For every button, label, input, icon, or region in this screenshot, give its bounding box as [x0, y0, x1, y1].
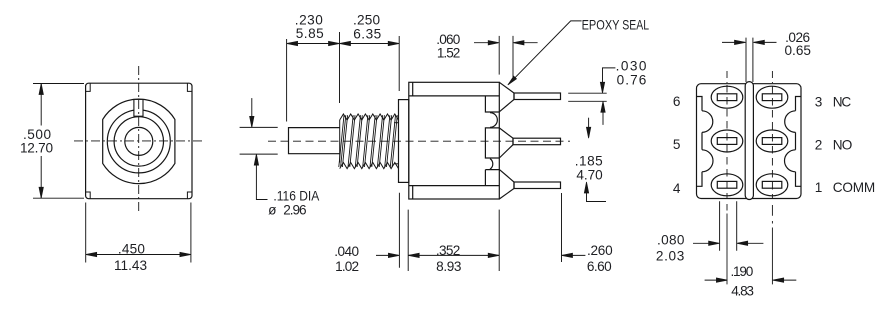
svg-text:.250: .250: [353, 12, 380, 27]
column centerline left through body: [726, 85, 728, 198]
dim .116 lower arrow tail with foot: [256, 155, 267, 199]
svg-text:0.65: 0.65: [784, 43, 811, 58]
terminal 1 ellipse: [756, 174, 788, 196]
dim .026 tails: [722, 41, 777, 43]
dim .185 lower arrow tail: [587, 183, 607, 202]
svg-text:.080: .080: [657, 233, 685, 248]
terminal 3 ellipse: [756, 86, 788, 108]
arrow .060 left: [488, 41, 499, 45]
svg-text:2: 2: [815, 138, 823, 153]
svg-text:.040: .040: [334, 244, 359, 259]
column centerline right above: [771, 71, 773, 83]
dim .260 tail: [563, 254, 586, 256]
terminal 4 pin: [717, 181, 737, 188]
terminal 5 ellipse: [711, 130, 743, 152]
terminal 2 ellipse: [756, 130, 788, 152]
arrow .116 down: [250, 116, 254, 127]
terminal pocket top: [485, 96, 499, 112]
svg-text:COMM: COMM: [833, 180, 876, 195]
arrow .080 left: [709, 241, 720, 245]
switch body: [409, 82, 500, 199]
right edge channel: [796, 97, 802, 187]
svg-text:0.76: 0.76: [617, 73, 647, 88]
arrow .185 down: [586, 127, 590, 138]
epoxy seal arrowhead: [508, 76, 517, 85]
arrow .080 right: [737, 241, 748, 245]
terminal 2 seal block: [485, 128, 499, 158]
svg-text:2.03: 2.03: [656, 248, 685, 263]
left notch arc upper: [702, 111, 713, 133]
thread-flange step bottom: [394, 163, 399, 165]
svg-text:EPOXY: EPOXY: [582, 17, 620, 32]
terminal pocket bottom: [485, 170, 499, 186]
dim .260 extension right: [561, 193, 563, 262]
arrow .352 left: [408, 253, 419, 257]
arrowheads: [39, 40, 784, 282]
dim .352 line: [408, 254, 499, 256]
svg-text:ø: ø: [268, 203, 276, 218]
terminal 6 ellipse: [711, 86, 743, 108]
terminal 2 pin: [762, 138, 782, 145]
arrow .026 right: [753, 40, 764, 44]
dim .230/.250 line: [287, 43, 400, 45]
terminal 1 pin: [514, 182, 561, 189]
terminal 5 pin: [717, 138, 737, 145]
terminal 3 pin: [514, 93, 561, 100]
arrow .190 left: [716, 278, 727, 282]
body cover line bottom: [409, 185, 500, 187]
dim .230/.250 extension C: [398, 36, 400, 91]
dim .060 extension right: [512, 36, 514, 77]
svg-text:.260: .260: [587, 243, 613, 258]
dim .030 leader: [603, 68, 616, 92]
bottom view body: [697, 84, 802, 199]
svg-text:3: 3: [815, 94, 823, 109]
plunger inner circle: [125, 127, 153, 155]
dimensions: [33, 21, 796, 280]
svg-text:4.70: 4.70: [576, 167, 603, 182]
dim .040 extensions: [399, 193, 408, 271]
dim .080 tails: [693, 242, 763, 244]
body lip top: [412, 82, 414, 96]
mounting flange: [399, 100, 409, 183]
arrow .500 up: [39, 84, 43, 95]
front view horizontal centerline: [74, 140, 203, 142]
column centerline left below: [726, 204, 728, 284]
svg-text:.030: .030: [616, 59, 647, 74]
arrow .026 left: [735, 40, 746, 44]
dim .040 tail: [376, 254, 398, 256]
body lip bottom: [412, 186, 414, 199]
terminal 3 cone top: [499, 82, 514, 112]
terminal 1 cone bottom: [499, 169, 514, 199]
dim .116 upper arrow tail: [251, 98, 253, 126]
corner notch TR: [187, 83, 192, 91]
dim .500 line: [40, 84, 42, 199]
svg-text:6: 6: [673, 94, 681, 109]
dim .450 extension right: [190, 203, 192, 263]
corner notch TL: [86, 83, 91, 91]
dim .185 upper arrow tail: [588, 118, 590, 138]
arrow .190 right: [773, 278, 784, 282]
arrow .060 right: [513, 41, 524, 45]
svg-text:1.02: 1.02: [335, 259, 359, 274]
front view vertical centerline: [138, 66, 140, 211]
svg-text:4: 4: [673, 181, 681, 196]
arrow .030 up: [601, 101, 605, 112]
right notch arc upper: [785, 111, 796, 133]
dim .500 extension bottom: [33, 197, 84, 199]
threaded bushing top crests: [340, 114, 399, 120]
arrow .030 down: [600, 82, 604, 93]
thread-flange step top: [394, 122, 399, 124]
arrow .250 right at C: [388, 41, 399, 45]
column centerline left above: [726, 71, 728, 83]
terminal 1 pin: [762, 181, 782, 188]
svg-text:.116 DIA: .116 DIA: [273, 189, 320, 204]
dim .450 line: [86, 254, 191, 256]
dim .352 extension right: [498, 210, 500, 271]
svg-text:.352: .352: [436, 243, 461, 258]
dim .026 extensions: [746, 38, 753, 82]
svg-text:5: 5: [673, 137, 681, 152]
dim .060 tails: [474, 42, 538, 44]
svg-text:2.96: 2.96: [283, 203, 306, 218]
terminal 6 pin: [717, 94, 737, 101]
corner notch BL: [86, 192, 91, 199]
svg-text:4.83: 4.83: [731, 283, 754, 298]
terminal 4 ellipse: [711, 174, 743, 196]
svg-text:1: 1: [815, 180, 823, 195]
arrow .450 left: [86, 252, 97, 256]
column centerline right below: [771, 205, 773, 284]
arrow .230 right at B: [329, 41, 340, 45]
dim .116 extension bottom: [240, 153, 278, 155]
bushing circle: [107, 110, 170, 173]
left edge channel: [697, 97, 703, 187]
svg-text:NO: NO: [833, 138, 853, 153]
dim .080 extensions: [720, 201, 737, 251]
front view body square: [86, 83, 192, 199]
dim .500 extension top: [33, 83, 84, 85]
threaded bushing start edge: [339, 120, 341, 163]
dim .230/.250 extension B: [339, 32, 341, 103]
arrow .500 down: [39, 187, 43, 198]
dim .450 extension left: [85, 203, 87, 263]
arrow .116 up: [254, 154, 258, 165]
keyway slot: [134, 99, 143, 116]
arrow .450 right: [180, 252, 191, 256]
center divider bar: [745, 82, 753, 200]
dim .116 extension top: [240, 126, 278, 128]
svg-text:6.35: 6.35: [353, 27, 381, 42]
dim .030 lower arrow tail: [602, 102, 604, 125]
arrow .260: [562, 253, 573, 257]
corner notch BR: [187, 192, 192, 199]
threaded bushing bottom crests: [340, 163, 399, 169]
svg-text:12.70: 12.70: [20, 140, 53, 155]
thread flank lines: [339, 115, 398, 167]
svg-text:5.85: 5.85: [296, 26, 324, 41]
plunger outer circle: [114, 117, 163, 166]
svg-text:NC: NC: [833, 94, 852, 109]
scallop between terminals 3 and 2: [490, 113, 497, 128]
dim .060 extension left: [498, 36, 500, 75]
left notch arc lower: [702, 150, 713, 172]
epoxy seal leader: [509, 21, 582, 84]
arrow .250 left at B: [340, 41, 351, 45]
terminal 2 cone: [499, 128, 513, 158]
dim .030 extension lines: [568, 93, 607, 101]
right notch arc lower: [785, 150, 796, 172]
arrow .185 up: [584, 182, 588, 193]
svg-text:8.93: 8.93: [436, 259, 461, 274]
svg-text:.190: .190: [731, 264, 754, 279]
terminal 2 pin: [513, 138, 561, 145]
svg-text:11.43: 11.43: [114, 258, 147, 273]
svg-text:1.52: 1.52: [437, 45, 461, 60]
dim .230/.250 extension A: [286, 39, 288, 122]
plunger shaft: [289, 128, 340, 154]
bushing outline with flats: [103, 99, 175, 184]
body cover line top: [409, 95, 500, 97]
arrow .352 right: [488, 253, 499, 257]
dim .190 tails: [705, 279, 797, 281]
scallop between terminals 2 and 1: [490, 159, 493, 170]
svg-text:6.60: 6.60: [587, 259, 612, 274]
arrow .040: [388, 253, 399, 257]
arrow .230 left: [287, 41, 298, 45]
svg-text:.185: .185: [575, 153, 603, 168]
side view centerline: [268, 140, 570, 142]
terminal 3 pin: [762, 94, 782, 101]
svg-text:.450: .450: [118, 242, 145, 257]
column centerline right through body: [771, 86, 773, 198]
svg-text:SEAL: SEAL: [622, 17, 649, 32]
